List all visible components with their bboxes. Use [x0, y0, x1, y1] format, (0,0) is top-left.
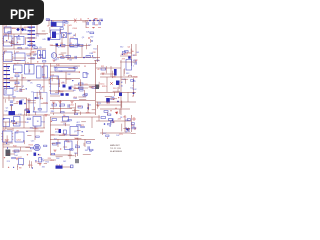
wire mesh v22: [123, 69, 125, 76]
resistor R24: [109, 119, 114, 121]
svg-text:R101: R101: [24, 27, 29, 29]
svg-text:U17: U17: [19, 157, 22, 159]
svg-text:A1: A1: [121, 81, 123, 84]
svg-text:R88: R88: [73, 98, 76, 100]
wire stub v68: [49, 27, 51, 33]
wire mesh v19: [106, 77, 108, 92]
relay K2: [51, 30, 61, 40]
svg-text:R215: R215: [22, 77, 27, 79]
bridge BR1: [62, 33, 67, 38]
wire mesh h6: [100, 73, 115, 75]
svg-text:TCL 21 1.3G: TCL 21 1.3G: [110, 148, 121, 150]
ic U5: [1, 131, 13, 142]
resistor R14: [60, 104, 65, 106]
node dot37: [6, 40, 7, 41]
svg-text:R88: R88: [74, 153, 77, 155]
wire stub h324: [81, 121, 86, 123]
svg-text:105: 105: [69, 59, 72, 61]
node dot91: [92, 55, 93, 56]
node dot25: [18, 35, 19, 36]
wire mesh h4: [12, 57, 26, 59]
svg-text:332: 332: [30, 128, 33, 130]
wire mesh v14: [57, 139, 59, 147]
diode D1: [16, 28, 20, 32]
junction tick221: [115, 108, 116, 109]
svg-text:332: 332: [120, 47, 123, 49]
wire rail y115: [3, 114, 50, 116]
relay K1: [14, 65, 23, 73]
wire stub h126: [28, 100, 36, 102]
capacitor C20: [34, 153, 37, 156]
wire stub v29: [24, 61, 26, 64]
svg-text:1: 1: [133, 62, 134, 64]
junction tick382: [132, 51, 133, 52]
node dot62: [55, 34, 56, 35]
svg-text:4K7: 4K7: [78, 88, 81, 90]
transistor Q2 tab: [95, 85, 99, 90]
ic U6 inner: [16, 37, 18, 45]
wire v50d: [50, 117, 52, 140]
wire bus y117: [50, 116, 100, 118]
ground g-q1: [52, 60, 55, 62]
resistor r359: [110, 121, 113, 123]
crystal X1 bar: [5, 90, 7, 95]
node dot383: [122, 54, 123, 55]
wire sec-b: [28, 98, 30, 116]
wire y139: [50, 139, 95, 141]
wire stub v228: [97, 102, 99, 109]
junction tick294: [4, 157, 5, 158]
resistor r229: [111, 98, 114, 100]
wire mesh h2: [3, 41, 14, 43]
resistor R17: [53, 143, 58, 145]
wire mesh v2: [36, 22, 38, 34]
wire stub h274: [7, 128, 12, 130]
transistor Q7 heatsink: [6, 150, 11, 157]
node n-r24b: [112, 119, 114, 121]
capacitor C5: [69, 87, 72, 90]
wire stub h193: [79, 99, 86, 101]
node dot293: [6, 143, 7, 144]
wire mesh v5: [8, 95, 10, 101]
wire y121 right: [96, 120, 131, 122]
connector CN2 pin bars: [28, 23, 36, 46]
svg-text:C77: C77: [29, 32, 32, 34]
wire top supply bus: [46, 20, 102, 22]
wire stub v239: [112, 71, 114, 78]
wire stub h244: [111, 98, 118, 100]
wire stub h162: [41, 102, 48, 104]
svg-text:102: 102: [116, 135, 119, 137]
svg-text:2: 2: [133, 66, 134, 68]
wire stub v314: [83, 143, 85, 146]
resistor R16: [52, 119, 57, 121]
ic U17: [19, 159, 24, 165]
resistor r78: [61, 57, 64, 59]
svg-text:104: 104: [15, 132, 18, 134]
svg-text:R88: R88: [99, 19, 102, 21]
ground g-r4: [133, 128, 136, 130]
svg-text:C45: C45: [59, 71, 62, 73]
ground g-b1: [53, 150, 56, 152]
wire stub h302: [32, 127, 36, 129]
wire stub h216: [55, 91, 59, 93]
wire stub v76: [86, 44, 88, 50]
svg-text:Q5: Q5: [54, 59, 57, 61]
wire rail y98: [3, 97, 27, 99]
wire stub v306: [5, 122, 7, 129]
capacitor C6: [68, 104, 69, 107]
wire stub v223: [105, 66, 107, 73]
wire mesh v11: [81, 45, 83, 57]
wire stub v258: [20, 147, 22, 151]
svg-text:R88: R88: [12, 97, 15, 99]
wire stub v345: [75, 153, 77, 157]
svg-text:C45: C45: [4, 111, 7, 113]
capacitor C3: [75, 56, 76, 59]
ground g-r2: [101, 73, 104, 75]
polarity marks: [132, 117, 136, 121]
wire mesh h19: [120, 55, 131, 57]
svg-text:R215: R215: [28, 165, 33, 167]
PDF badge: [0, 0, 44, 25]
svg-text:C45: C45: [42, 39, 45, 41]
svg-text:Q5: Q5: [22, 86, 25, 88]
wire mesh h0: [3, 27, 26, 29]
wire mesh h1: [26, 37, 37, 39]
ground g-left1: [15, 158, 18, 160]
svg-text:ZD1: ZD1: [113, 88, 117, 90]
resistor r288: [44, 145, 47, 147]
svg-text:C45: C45: [75, 39, 78, 41]
wire stub v173: [80, 82, 82, 86]
wire y92 right: [96, 92, 136, 94]
capacitor C22: [99, 22, 100, 25]
wire mid y108: [50, 108, 72, 110]
resistor R28: [90, 32, 94, 34]
svg-text:ZD1: ZD1: [61, 47, 65, 49]
connector CN3: [56, 166, 63, 169]
ic U8: [15, 132, 24, 142]
svg-text:R88: R88: [47, 20, 50, 22]
resistor r343: [70, 149, 73, 151]
junction tick211: [84, 65, 85, 66]
svg-text:1N41: 1N41: [67, 25, 72, 27]
resistor r89: [60, 28, 63, 30]
ground g-mid1: [44, 115, 47, 117]
resistor r177: [74, 113, 77, 115]
svg-text:332: 332: [42, 166, 45, 168]
junction tick180: [79, 71, 80, 72]
svg-text:104: 104: [88, 45, 91, 47]
wire mesh h17: [44, 159, 56, 161]
wire stub v140: [2, 82, 4, 87]
wire stub h404: [82, 21, 86, 23]
resistor r197: [83, 95, 86, 97]
wire stub v176: [80, 79, 82, 86]
wire mid y45: [58, 45, 90, 47]
capacitor C8: [59, 129, 62, 133]
wire mesh h13: [26, 130, 44, 132]
wire mid y66: [50, 65, 80, 67]
wire mid y85: [74, 84, 95, 86]
wire v17: [16, 77, 18, 90]
resistor r374: [132, 127, 135, 128]
label C1 tick: [88, 18, 90, 20]
capacitor C16 pill: [114, 69, 117, 76]
svg-text:100u: 100u: [12, 28, 16, 30]
wire stub h195: [89, 85, 96, 87]
resistor r203: [84, 94, 87, 96]
wire mesh v16: [84, 139, 86, 147]
svg-text:Q5: Q5: [6, 107, 9, 109]
node dot56: [25, 29, 26, 30]
wire stub h60: [61, 52, 67, 54]
wire stub h159: [20, 89, 25, 91]
speaker LS1 fill: [35, 146, 39, 150]
wire mesh v7: [34, 126, 36, 140]
capacitor C4: [63, 85, 66, 88]
wire stub h398: [44, 162, 47, 164]
resistor r169: [80, 90, 83, 92]
wire stub h344: [68, 155, 75, 157]
wire mesh v17: [91, 117, 93, 128]
svg-text:R44: R44: [13, 146, 16, 148]
svg-text:1K: 1K: [63, 124, 66, 126]
svg-text:100u: 100u: [100, 83, 104, 85]
wire stub v280: [16, 164, 18, 167]
resistor r341: [57, 142, 60, 144]
crystal X1: [4, 89, 13, 96]
wire stub h67: [67, 58, 74, 60]
svg-text:VD8: VD8: [10, 78, 14, 80]
wire stub v218: [84, 90, 86, 96]
wire stub h354: [63, 146, 67, 148]
svg-text:RT1: RT1: [119, 134, 123, 136]
wire stub h41: [42, 33, 48, 35]
wire stub v215: [52, 113, 54, 115]
wire mesh h9: [50, 95, 60, 97]
resistor R45: [14, 150, 19, 152]
capacitor C9: [64, 130, 67, 134]
wire mesh v10: [61, 38, 63, 45]
svg-text:D12: D12: [55, 132, 58, 134]
wire stub h54: [10, 43, 15, 45]
resistor R3: [61, 45, 66, 47]
resistor r42: [43, 61, 46, 63]
junction tick125: [27, 111, 28, 112]
resistor R21: [101, 68, 106, 70]
junction tick110: [42, 98, 43, 99]
wire stub v300: [23, 141, 25, 145]
resistor r349: [51, 153, 54, 155]
wire stub h48: [14, 44, 21, 46]
svg-text:102: 102: [13, 69, 16, 71]
wire stub v142: [23, 110, 25, 116]
wire mesh v25: [12, 128, 14, 131]
resistor r363: [108, 123, 111, 125]
junction tick66: [51, 26, 52, 27]
wire stub v167: [58, 79, 60, 86]
wire stub v325: [77, 137, 79, 140]
wire y102 right: [96, 101, 136, 103]
capacitor C10 plate pair: [10, 101, 13, 102]
svg-text:4K7: 4K7: [70, 86, 73, 88]
svg-text:1N41: 1N41: [43, 103, 48, 105]
wire stub v24: [25, 37, 27, 45]
svg-text:1K: 1K: [37, 121, 40, 123]
label C2 tick: [95, 18, 97, 20]
svg-text:22K: 22K: [95, 25, 99, 27]
svg-text:105: 105: [136, 52, 139, 54]
wire stub h129: [14, 102, 19, 104]
wire v97: [97, 45, 99, 62]
wire mesh v0: [13, 34, 15, 49]
svg-text:C45: C45: [23, 30, 26, 32]
wire stub h199: [66, 78, 72, 80]
wire v95 long: [95, 60, 97, 115]
node n-90-40: [91, 40, 92, 41]
wire stub v362: [121, 124, 123, 132]
svg-text:2SC: 2SC: [123, 117, 127, 119]
svg-text:4K7: 4K7: [65, 141, 68, 143]
wire stub v171: [51, 77, 53, 82]
ic U13: [70, 127, 78, 136]
svg-text:473: 473: [35, 128, 38, 130]
arrow a1: [115, 112, 118, 115]
capacitor C11 plate pair: [10, 105, 13, 106]
led DS2: [56, 44, 59, 47]
node top-c: [97, 20, 99, 22]
svg-text:Q5: Q5: [112, 96, 115, 98]
svg-text:R215: R215: [86, 113, 91, 115]
wire stub h267: [3, 144, 10, 146]
resistor r30: [39, 54, 42, 56]
junction tick210: [53, 102, 54, 103]
svg-text:J1: J1: [47, 26, 49, 28]
wire mesh h8: [74, 87, 88, 89]
wire mesh v9: [55, 45, 57, 57]
svg-text:RT1: RT1: [91, 88, 95, 90]
wire stub v155: [4, 99, 6, 103]
svg-text:105: 105: [27, 81, 30, 83]
ground g-b2: [38, 164, 41, 166]
wire stub v235: [98, 82, 100, 88]
wire stub h307: [25, 147, 30, 149]
wire stub v277: [29, 160, 31, 168]
resistor R11: [79, 83, 84, 85]
resistor r388: [122, 52, 125, 54]
svg-text:4K7: 4K7: [133, 60, 136, 62]
diode D7: [128, 56, 131, 59]
resistor r266: [36, 136, 39, 138]
svg-text:R88: R88: [67, 33, 70, 35]
node dot313: [35, 160, 36, 161]
schematic canvas: [0, 0, 149, 198]
wire mesh v6: [23, 115, 25, 128]
node dot251: [133, 80, 134, 81]
wire stub v122: [10, 105, 12, 110]
svg-text:R88: R88: [27, 55, 30, 57]
wire stub v257: [119, 109, 121, 114]
wire v125: [124, 115, 126, 132]
capacitor C2: [93, 22, 94, 25]
resistor r205: [92, 87, 95, 89]
wire stub h214: [72, 110, 79, 112]
wire y77 right: [100, 76, 137, 78]
capacitor C1: [87, 22, 88, 25]
ground g-r3: [96, 105, 99, 107]
capacitor C21: [20, 88, 21, 91]
junction tick276: [27, 154, 28, 155]
svg-text:10K: 10K: [86, 31, 90, 33]
zener Z1: [110, 82, 113, 85]
resistor r11: [18, 47, 21, 49]
svg-text:C204: C204: [69, 105, 74, 107]
svg-text:+B: +B: [97, 69, 100, 71]
wire mesh v3: [43, 63, 45, 84]
svg-text:U12: U12: [51, 75, 54, 77]
svg-text:1K: 1K: [30, 83, 33, 85]
wire mesh h3: [26, 53, 37, 55]
wire vr131: [131, 44, 133, 66]
resistor r271: [11, 120, 14, 122]
junction tick137: [15, 84, 16, 85]
resistor r411: [65, 22, 68, 24]
svg-text:R88: R88: [51, 111, 54, 113]
resistor R19: [87, 142, 91, 144]
node dot185: [72, 80, 73, 81]
wire rail y49: [3, 48, 46, 50]
svg-text:R215: R215: [29, 145, 34, 147]
wire stub v190: [56, 76, 58, 80]
svg-text:Q5: Q5: [74, 131, 77, 133]
wire stub v175: [80, 112, 82, 115]
capacitor C7 box: [83, 73, 87, 78]
wire stub v194: [88, 104, 90, 110]
resistor R27: [15, 82, 19, 84]
resistor R23: [101, 117, 106, 119]
svg-text:Q5: Q5: [82, 37, 85, 39]
svg-text:332: 332: [90, 37, 93, 39]
fuse F1: [74, 19, 77, 23]
ic U10 divider: [39, 93, 41, 113]
resistor R8: [86, 56, 91, 58]
svg-text:2SC: 2SC: [29, 40, 33, 42]
junction tick100: [64, 24, 65, 25]
wire v131b: [131, 115, 133, 132]
resistor R4: [70, 45, 75, 47]
svg-text:ZD1: ZD1: [61, 82, 65, 84]
wire stub h334: [56, 156, 63, 158]
svg-text:C204: C204: [16, 140, 21, 142]
resistor r63: [76, 44, 79, 46]
ic U10 shield: [34, 93, 48, 113]
svg-text:MAIN UNIT: MAIN UNIT: [110, 144, 121, 147]
wire v88: [87, 103, 89, 113]
wire stub v237: [114, 92, 116, 96]
wire rail y63: [3, 63, 97, 65]
transistor Q1 bar: [52, 54, 54, 57]
resistor r35: [34, 47, 37, 49]
wire stub h44: [29, 42, 33, 44]
svg-text:473: 473: [112, 122, 115, 124]
wire stub v371: [127, 128, 129, 132]
wire stub v372: [102, 129, 104, 135]
wire stub v308: [6, 135, 8, 142]
svg-text:Q5: Q5: [56, 69, 59, 71]
resistor R20: [125, 51, 129, 53]
